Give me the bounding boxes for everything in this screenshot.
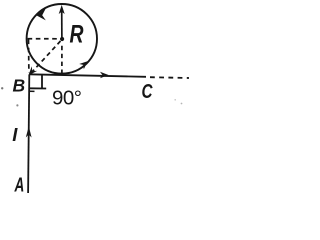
svg-text:I: I <box>12 124 18 145</box>
svg-text:90°: 90° <box>52 87 82 110</box>
center dot <box>60 37 64 41</box>
svg-text:C: C <box>142 81 153 103</box>
arrowhead on diagonal pointing at B <box>28 66 37 75</box>
radius arrowhead <box>59 5 65 14</box>
svg-text:R: R <box>70 20 84 48</box>
svg-text:B: B <box>13 76 26 96</box>
right-angle marker at B <box>29 75 46 88</box>
dashed extension of wire AB (B up to left tangent point) <box>28 40 30 73</box>
loop current arrowhead (bottom-right, pointing up-right) <box>79 61 87 69</box>
dashed radius (horizontal, left tangent point to center) <box>28 38 61 40</box>
svg-text:A: A <box>14 175 24 197</box>
dashed diagonal (center to corner B) <box>33 41 61 72</box>
dashed radius (vertical, center to bottom tangent point) <box>61 46 63 74</box>
right-angle marker overshoot stroke <box>29 90 35 92</box>
radius arrow shaft (center to top) <box>61 9 63 40</box>
wire B to C (solid part) <box>29 74 146 77</box>
loop current arrowhead (top-left, pointing down-left) <box>36 8 46 21</box>
current arrowhead on wire AB (pointing up) <box>26 126 32 137</box>
arrowhead on wire BC <box>100 72 109 79</box>
dashed continuation of BC <box>150 76 189 79</box>
wire A to B <box>28 75 29 194</box>
circular loop <box>27 4 97 74</box>
